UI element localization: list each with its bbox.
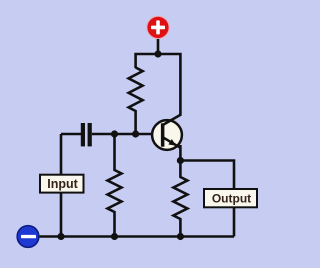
capacitor C1 left plate xyxy=(81,123,85,146)
junction dot: top node xyxy=(154,50,161,57)
resistor R2 (base bias lower) xyxy=(108,134,122,237)
svg-text:Input: Input xyxy=(47,177,78,191)
junction dot: R3 on bottom rail xyxy=(177,233,184,240)
junction dot: emitter / output node xyxy=(177,157,184,164)
wire: base line from input corner to capacitor xyxy=(61,133,81,136)
wire: supply stub from + terminal to top junction xyxy=(157,37,160,54)
junction dot: R2 on bottom rail xyxy=(111,233,118,240)
wire: base line from capacitor to transistor base xyxy=(92,133,162,136)
Output label box xyxy=(204,189,257,207)
wire: top rail with left drop to R1 and right drop to collector joint xyxy=(136,54,181,115)
capacitor C1 right plate xyxy=(88,123,92,146)
wire: emitter vertical below transistor to output node xyxy=(179,145,182,161)
junction dot: capacitor / R2 node xyxy=(111,130,118,137)
negative supply terminal (-) xyxy=(16,225,39,248)
junction dot: input line on bottom rail xyxy=(57,233,64,240)
junction dot: R1 bottom / base node xyxy=(132,130,139,137)
Input label box xyxy=(40,175,84,193)
wire: output loop right side xyxy=(180,161,234,237)
wire: bottom rail xyxy=(36,235,234,238)
transistor Q1 xyxy=(152,114,182,149)
resistor R1 (base bias upper) xyxy=(129,68,143,135)
wire: input vertical line xyxy=(60,134,63,237)
resistor R3 (emitter) xyxy=(173,161,187,237)
positive supply terminal (+) xyxy=(146,16,169,39)
svg-text:Output: Output xyxy=(212,192,251,206)
